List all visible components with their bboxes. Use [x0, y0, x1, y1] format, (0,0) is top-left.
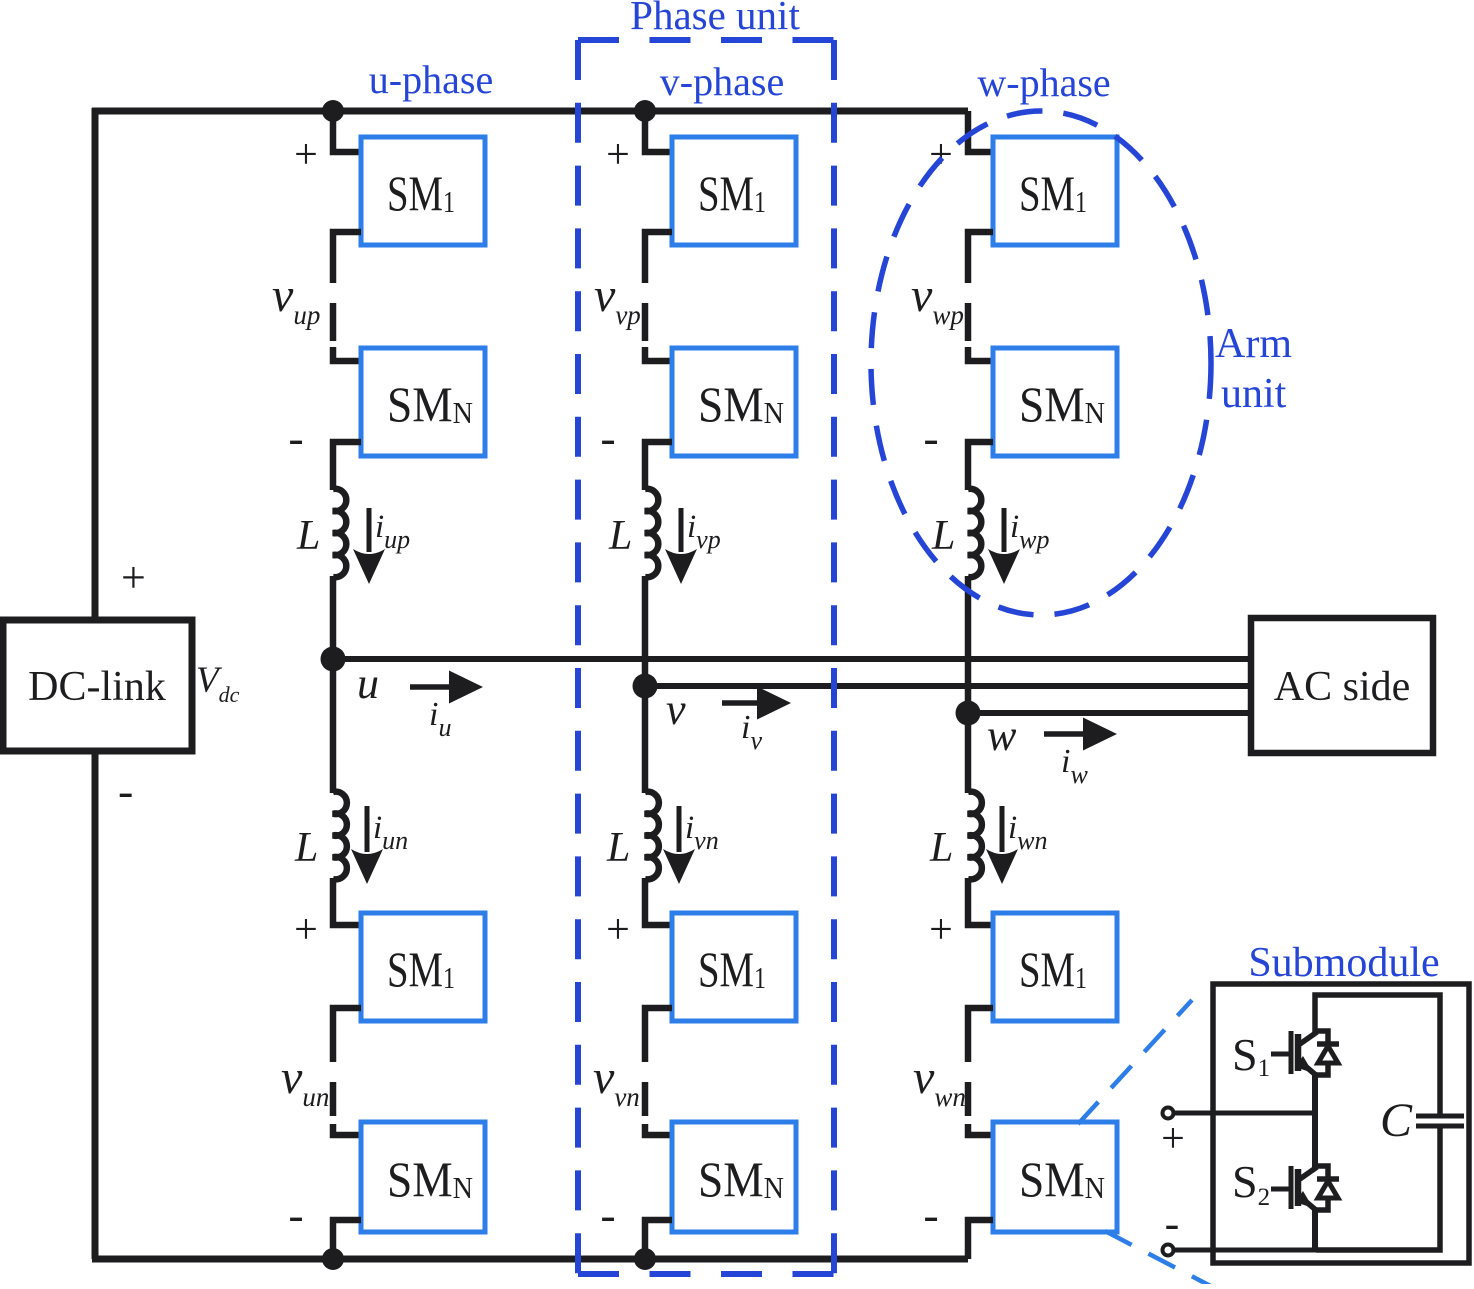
transistor S2 (IGBT with antiparallel diode)	[1271, 1166, 1339, 1211]
svg-text:w-phase: w-phase	[977, 60, 1110, 105]
inductor L (v-phase lower arm)	[645, 792, 659, 880]
wire: v-phase upper arm feed to SM1	[645, 111, 672, 152]
wire: inductor to node w	[965, 576, 972, 713]
wire: positive DC bus	[92, 108, 968, 115]
wire: capacitor bottom to half-bridge bottom	[1316, 1128, 1440, 1250]
inductor L (w-phase upper arm)	[968, 489, 981, 577]
wire: dashed continuation (u-phase lower arm)	[330, 1082, 337, 1116]
submodule SM1 (u-phase upper arm)	[361, 137, 485, 245]
wire: break to SMN (w-phase lower arm)	[968, 1124, 993, 1135]
wire: phase v AC output line	[645, 683, 1251, 689]
wire: inductor to SM1 (u-phase lower arm)	[333, 878, 361, 925]
junction: u-phase top node	[322, 100, 344, 122]
current arrow i_vp	[665, 508, 697, 584]
wire: node w to lower inductor	[965, 713, 972, 793]
wire: SMN to negative bus (w-phase)	[968, 1220, 993, 1259]
junction: node u	[321, 647, 346, 672]
svg-text:L: L	[608, 513, 632, 559]
current arrow i_un	[351, 806, 383, 884]
junction: node w	[956, 701, 981, 726]
wire: SMN to negative bus (u-phase)	[333, 1220, 361, 1259]
current arrow i_up	[353, 508, 385, 584]
inductor L (v-phase upper arm)	[645, 489, 658, 577]
wire: dashed continuation (v-phase upper arm)	[642, 303, 649, 341]
terminal: submodule -	[1163, 1245, 1174, 1256]
svg-text:v: v	[666, 685, 686, 734]
svg-text:+: +	[929, 907, 953, 953]
wire: dashed continuation (v-phase lower arm)	[642, 1082, 649, 1116]
svg-text:-: -	[600, 1189, 615, 1240]
leader: zoom line upper (SMN to submodule detail)	[1078, 1000, 1192, 1124]
svg-text:u-phase: u-phase	[369, 57, 493, 102]
submodule SMN (w-phase upper arm)	[993, 348, 1117, 456]
svg-text:C: C	[1380, 1094, 1413, 1147]
submodule SM1 (v-phase lower arm)	[672, 913, 796, 1021]
wire: dashed continuation (w-phase lower arm)	[965, 1082, 972, 1116]
wire: DC-link negative lead	[92, 751, 99, 1259]
current arrow i_v	[722, 687, 791, 720]
wire: SM1 to break (w-phase lower arm)	[968, 1008, 993, 1062]
wire: SMN to inductor (v-phase upper arm)	[645, 442, 672, 490]
transistor S1 (IGBT with antiparallel diode)	[1271, 1031, 1339, 1076]
wire: DC-link positive lead	[92, 108, 99, 621]
submodule SM1 (w-phase upper arm)	[993, 137, 1117, 245]
wire: SM1 to break (v-phase lower arm)	[645, 1008, 672, 1062]
inductor L (w-phase lower arm)	[968, 792, 982, 880]
wire: half-bridge midpoint (S1 emitter to S2 collector)	[1312, 1073, 1318, 1168]
wire: - terminal to half-bridge bottom	[1172, 1248, 1318, 1253]
wire: phase u AC output line	[333, 656, 1251, 662]
submodule SMN (u-phase upper arm)	[361, 348, 485, 456]
submodule SMN (v-phase upper arm)	[672, 348, 796, 456]
wire: node v to lower inductor	[642, 686, 649, 793]
inductor L (u-phase upper arm)	[333, 489, 346, 577]
svg-text:-: -	[923, 412, 938, 463]
leader: zoom line lower (SMN to submodule detail)	[1105, 1231, 1222, 1289]
wire: SMN to inductor (w-phase upper arm)	[968, 442, 993, 490]
wire: inductor to node v	[642, 576, 649, 686]
svg-text:Arm: Arm	[1215, 321, 1292, 367]
svg-text:L: L	[296, 513, 320, 559]
wire: inductor to SM1 (v-phase lower arm)	[645, 878, 672, 925]
wire: negative DC bus	[92, 1256, 968, 1263]
wire: SMN to inductor (u-phase upper arm)	[333, 442, 361, 490]
wire: dashed continuation (w-phase upper arm)	[965, 303, 972, 341]
wire: + terminal to half-bridge midpoint	[1172, 1111, 1316, 1116]
wire: break to SMN (v-phase upper arm)	[645, 347, 672, 361]
wire: break to SMN (v-phase lower arm)	[645, 1124, 672, 1135]
submodule SMN (v-phase lower arm)	[672, 1122, 796, 1232]
current arrow i_wn	[986, 806, 1018, 884]
submodule SM1 (u-phase lower arm)	[361, 913, 485, 1021]
wire: w-phase upper arm feed to SM1	[968, 111, 993, 152]
svg-text:-: -	[1165, 1199, 1180, 1248]
wire: S1 collector to capacitor top	[1315, 995, 1440, 1114]
submodule SMN (u-phase lower arm)	[361, 1122, 485, 1232]
current arrow i_wp	[988, 508, 1020, 584]
enclosure: submodule detail box	[1213, 984, 1469, 1263]
svg-text:+: +	[294, 907, 318, 953]
svg-text:-: -	[118, 765, 133, 816]
svg-text:+: +	[294, 132, 318, 178]
wire: SM1 to break (v-phase upper arm)	[645, 232, 672, 283]
svg-text:-: -	[288, 412, 303, 463]
wire: break to SMN (u-phase upper arm)	[333, 347, 361, 361]
enclosure: Phase unit dashed box	[578, 40, 834, 1274]
svg-text:L: L	[294, 825, 318, 871]
svg-text:v-phase: v-phase	[660, 59, 784, 104]
wire: u-phase upper arm feed to SM1	[333, 111, 361, 152]
svg-text:unit: unit	[1221, 371, 1287, 417]
wire: node u to lower inductor	[330, 659, 337, 793]
svg-text:+: +	[121, 553, 146, 602]
svg-text:-: -	[923, 1189, 938, 1240]
inductor L (u-phase lower arm)	[333, 792, 347, 880]
wire: SM1 to break (u-phase lower arm)	[333, 1008, 361, 1062]
terminal: submodule +	[1163, 1108, 1174, 1119]
wire: dashed continuation (u-phase upper arm)	[330, 303, 337, 341]
svg-text:Submodule: Submodule	[1248, 940, 1439, 986]
block: AC side	[1251, 618, 1433, 753]
wire: inductor to node u	[330, 576, 337, 659]
current arrow i_w	[1044, 718, 1117, 751]
svg-text:L: L	[929, 825, 953, 871]
svg-text:L: L	[931, 513, 955, 559]
submodule SM1 (w-phase lower arm)	[993, 913, 1117, 1021]
current arrow i_u	[410, 671, 483, 704]
svg-text:w: w	[987, 711, 1017, 760]
svg-text:AC side: AC side	[1274, 664, 1411, 710]
svg-text:-: -	[288, 1189, 303, 1240]
svg-text:L: L	[606, 825, 630, 871]
svg-text:Phase unit: Phase unit	[630, 0, 800, 38]
svg-text:+: +	[1161, 1116, 1185, 1162]
wire: break to SMN (u-phase lower arm)	[333, 1124, 361, 1135]
submodule SMN (w-phase lower arm)	[993, 1122, 1117, 1232]
wire: phase w AC output line	[968, 710, 1251, 716]
capacitor C	[1416, 1116, 1464, 1126]
enclosure: Arm unit dashed ellipse	[871, 111, 1211, 615]
junction: u-phase bottom node	[322, 1248, 344, 1270]
wire: S2 emitter to bottom rail	[1312, 1208, 1318, 1252]
junction: node v	[633, 674, 658, 699]
wire: SM1 to break (u-phase upper arm)	[333, 232, 361, 283]
junction: v-phase top node	[634, 100, 656, 122]
svg-text:+: +	[606, 132, 630, 178]
submodule SM1 (v-phase upper arm)	[672, 137, 796, 245]
current arrow i_vn	[663, 806, 695, 884]
wire: break to SMN (w-phase upper arm)	[968, 347, 993, 361]
voltage source DC-link	[3, 620, 192, 751]
wire: SMN to negative bus (v-phase)	[645, 1220, 672, 1259]
svg-text:u: u	[357, 659, 379, 708]
svg-text:-: -	[600, 412, 615, 463]
svg-text:DC-link: DC-link	[28, 664, 166, 710]
label: Arm unit	[1215, 321, 1292, 417]
junction: v-phase bottom node	[634, 1248, 656, 1270]
wire: SM1 to break (w-phase upper arm)	[968, 232, 993, 283]
wire: inductor to SM1 (w-phase lower arm)	[968, 878, 993, 925]
svg-text:+: +	[606, 907, 630, 953]
